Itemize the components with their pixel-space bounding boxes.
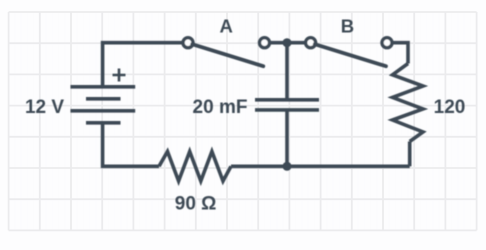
wire between switch A right contact and switch B left contact through node N1	[269, 41, 306, 45]
battery plus sign	[113, 69, 126, 82]
wire top-left from battery to switch A	[103, 43, 184, 87]
switch A right contact	[260, 38, 270, 48]
wire bottom-middle resistor R1 to node C	[231, 165, 287, 169]
switch A blade	[192, 44, 263, 66]
wire bottom-right node C to resistor R2	[287, 165, 410, 169]
svg-text:20 mF: 20 mF	[193, 97, 248, 118]
wire right-side resistor R2 top lead to switch B	[392, 43, 408, 64]
svg-text:A: A	[220, 16, 233, 37]
switch A left contact	[183, 38, 193, 48]
node N1 junction dot (top)	[283, 38, 292, 47]
svg-text:90 Ω: 90 Ω	[175, 194, 217, 215]
wire node N1 down to capacitor C1	[285, 43, 289, 100]
wire right-side resistor R2 bottom lead	[408, 142, 412, 167]
wire bottom-left from battery to resistor R1	[103, 123, 159, 167]
switch B right contact	[382, 38, 392, 48]
capacitor C1 20 mF	[255, 100, 319, 110]
resistor R2 120 ohm (vertical)	[393, 64, 424, 142]
wire capacitor C1 down to node C	[285, 110, 289, 166]
svg-text:B: B	[341, 16, 354, 37]
svg-text:120: 120	[434, 97, 466, 118]
node C junction dot (bottom)	[283, 162, 292, 171]
switch B left contact	[306, 38, 316, 48]
resistor R1 90 ohm (horizontal)	[159, 152, 231, 182]
battery V1 12 V	[71, 87, 136, 123]
svg-text:12 V: 12 V	[25, 97, 64, 118]
switch B blade	[315, 44, 386, 66]
